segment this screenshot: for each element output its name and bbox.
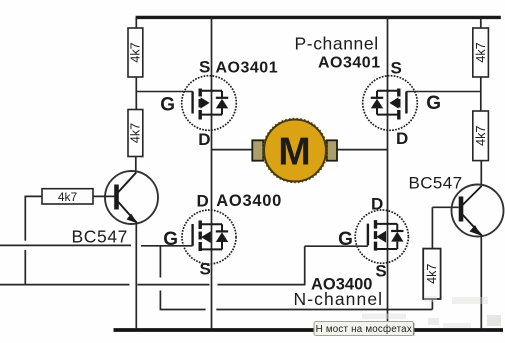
label AO3400 of U3: [216, 192, 282, 210]
transistor Q1 BC547 left: [93, 171, 158, 224]
wire Q2 emitter to ground: [480, 236, 482, 330]
wire input A branch down (gap at input B crossing): [159, 245, 161, 309]
wire corner down to input B (with crossing gap at input A): [24, 196, 26, 286]
svg-text:D: D: [198, 130, 210, 149]
svg-text:G: G: [338, 229, 353, 250]
svg-text:G: G: [426, 93, 441, 114]
wire R4 to Q2 collector: [480, 161, 482, 186]
wire Q1 emitter to ground: [135, 223, 137, 329]
jpeg artifact smudges bottom right: [362, 296, 501, 328]
resistor R4 4k7: [473, 111, 489, 161]
svg-text:S: S: [391, 59, 402, 78]
wire right column (S-D of U2, U4): [387, 17, 389, 329]
label D of U3: [197, 192, 209, 211]
svg-text:P-channel: P-channel: [295, 34, 379, 54]
label G of U4: [338, 229, 353, 250]
wire base net lower (input A branch to R5, gap at left column): [160, 299, 433, 310]
label G of U2: [426, 93, 441, 114]
svg-text:S: S: [375, 262, 386, 281]
svg-text:D: D: [371, 195, 383, 214]
label G of U3: [163, 229, 178, 250]
svg-text:Н мост на мосфетах: Н мост на мосфетах: [316, 324, 412, 335]
resistor R2 4k7: [128, 110, 143, 157]
label S of U3: [200, 260, 211, 279]
label AO3400 of U4: [311, 276, 372, 294]
wire input B (left edge to U4 gate, gaps at crossings): [0, 246, 368, 285]
label D of U1: [198, 130, 210, 149]
label G of U1: [160, 95, 175, 116]
svg-text:M: M: [278, 131, 311, 174]
svg-text:4k7: 4k7: [58, 190, 78, 204]
svg-text:4k7: 4k7: [474, 126, 488, 146]
svg-text:BC547: BC547: [409, 174, 463, 193]
label S of U2: [391, 59, 402, 78]
resistor R5 4k7 (Q2 base): [423, 249, 440, 299]
resistor R6 4k7 horizontal (Q1 base): [42, 189, 93, 204]
transistor Q2 BC547 right: [452, 185, 504, 237]
label S of U1: [199, 58, 210, 77]
ground rail: [114, 328, 504, 332]
label BC547 of Q2: [409, 174, 463, 193]
wire gate UL from bus: [136, 91, 192, 93]
svg-text:AO3401: AO3401: [216, 59, 279, 76]
wire R6 left to corner: [25, 195, 42, 197]
mosfet U1 AO3401 upper-left: [182, 76, 237, 131]
svg-text:S: S: [199, 58, 210, 77]
svg-text:G: G: [163, 229, 178, 250]
label D of U4: [371, 195, 383, 214]
svg-text:G: G: [160, 95, 175, 116]
label P-channel: [295, 34, 379, 54]
svg-text:4k7: 4k7: [474, 42, 488, 62]
svg-text:AO3401: AO3401: [318, 54, 381, 71]
wire R2 to Q1 collector: [135, 157, 137, 173]
label N-channel: [294, 289, 384, 309]
wire left column (S-D of U1, U3): [211, 17, 213, 329]
power rail V+: [136, 16, 501, 19]
wire right bus between R3 and R4: [480, 77, 482, 111]
motor terminal left: [252, 140, 263, 160]
mosfet U3 AO3400 lower-left: [182, 210, 236, 264]
label D of U2: [396, 129, 408, 148]
svg-text:S: S: [200, 260, 211, 279]
motor terminal right: [327, 140, 337, 160]
label AO3401 of U1: [216, 59, 279, 76]
mosfet U4 AO3400 lower-right: [355, 210, 408, 263]
label S of U4: [375, 262, 386, 281]
svg-text:BC547: BC547: [72, 227, 129, 247]
resistor R3 4k7: [473, 28, 489, 77]
svg-text:D: D: [197, 192, 209, 211]
svg-text:N-channel: N-channel: [294, 289, 384, 309]
wire input A (left edge to U3 gate, gap at left bus): [0, 244, 193, 246]
svg-text:D: D: [396, 129, 408, 148]
svg-text:4k7: 4k7: [425, 264, 439, 284]
wire motor left: [212, 149, 253, 151]
label BC547 of Q1: [72, 227, 129, 247]
mosfet U2 AO3401 upper-right (mirrored): [363, 76, 418, 131]
wire left bus between R1 and R2: [135, 77, 137, 110]
wire gate UR from right bus: [406, 91, 480, 93]
wire motor right: [337, 149, 388, 151]
label AO3401 of U2: [318, 54, 381, 71]
svg-text:4k7: 4k7: [129, 123, 143, 143]
svg-text:AO3400: AO3400: [216, 192, 282, 210]
caption tooltip box: [314, 322, 414, 336]
motor M1: [263, 119, 327, 183]
svg-text:4k7: 4k7: [129, 42, 143, 62]
wire R5 top to Q2 base: [432, 207, 458, 248]
right bus top stub: [480, 17, 482, 28]
wire left bus top stub: [135, 17, 137, 28]
resistor R1 4k7: [128, 28, 143, 77]
